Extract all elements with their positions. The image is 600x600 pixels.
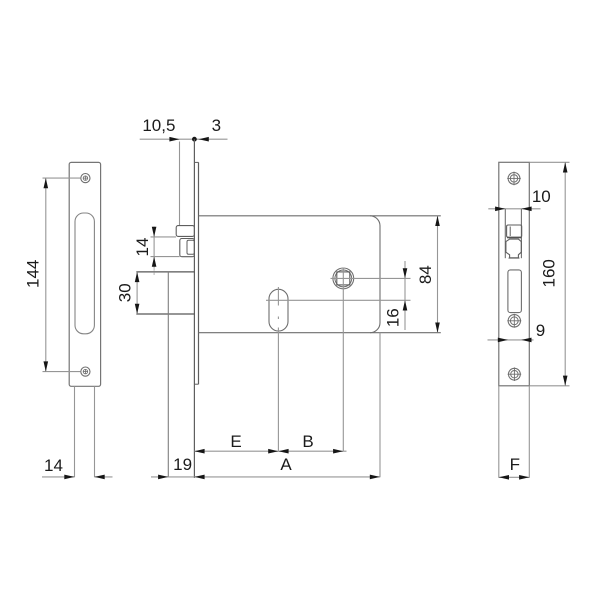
dimension 14 (latch) extension lines (151, 237, 180, 257)
forend bottom screw (508, 367, 522, 381)
dimension 10,5 arrow (169, 137, 179, 142)
keyhole oval (269, 289, 288, 331)
dimension 19 arrow (158, 475, 168, 480)
dimension E arrows (194, 449, 278, 454)
latch lower block inner rectangle (187, 240, 194, 254)
body right edge extension line (379, 333, 381, 478)
dimension 14 (slot width) line (42, 476, 113, 478)
latch lower block (180, 239, 195, 257)
auxiliary bolt front (506, 239, 521, 258)
dimension 160 arrows (563, 162, 568, 385)
svg-text:19: 19 (173, 455, 192, 474)
lock body top edge (199, 215, 441, 217)
dimension 10 line (488, 208, 540, 210)
svg-text:144: 144 (23, 260, 42, 288)
counter plate slot (75, 213, 94, 334)
cylinder screw (507, 314, 521, 328)
rear box left edge / extension line (167, 272, 169, 477)
latch head upper block (176, 226, 194, 237)
rear box top edge (136, 271, 194, 273)
dimension 84 line (437, 216, 439, 333)
screw hole bottom left plate (81, 367, 90, 376)
keyhole slot front (508, 270, 522, 313)
dimension 144 line (45, 178, 47, 372)
spindle hole inner circle (335, 270, 352, 287)
svg-text:9: 9 (536, 321, 545, 340)
latch channel lines (505, 209, 521, 258)
latch head front block (507, 225, 522, 237)
spindle horizontal centerline (331, 277, 411, 279)
svg-text:A: A (280, 455, 292, 474)
svg-text:16: 16 (383, 308, 402, 327)
dimension 3 arrow (199, 137, 209, 142)
forend top screw (507, 172, 521, 186)
svg-text:F: F (510, 455, 520, 474)
lock body right edge with rounded corners (370, 216, 380, 333)
dimension 10 arrows (495, 207, 531, 212)
dimension 9 line (488, 339, 534, 341)
latch divider line (507, 237, 522, 239)
slot width extension lines (75, 386, 95, 477)
latch head inner line (509, 227, 511, 237)
keyhole horizontal centerline (266, 299, 411, 301)
svg-text:160: 160 (539, 259, 558, 287)
dimension A left arrow (194, 475, 204, 480)
dimension A right arrow (370, 475, 380, 480)
auxiliary bolt bottom line (509, 257, 520, 259)
spindle vertical centerline (342, 268, 344, 452)
dimension 14 (slot width) arrows (64, 475, 104, 480)
dimension 84 arrows (435, 216, 440, 333)
dimension E/B line (194, 450, 346, 452)
dimension 30 arrows (135, 272, 140, 314)
dimension 9 arrows (498, 338, 532, 343)
dimension 14 (latch) line (153, 227, 155, 268)
dimension 16 arrows (403, 268, 408, 310)
forend edge extension lines (499, 386, 530, 478)
forend plate end caps (194, 162, 198, 384)
counter plate outline (69, 162, 100, 386)
dimension 16 line (404, 261, 406, 330)
dimension 144 arrows (44, 178, 49, 372)
keyhole vertical centerline (277, 287, 279, 451)
screw hole top left plate (81, 174, 90, 183)
forend plate left edge / extension line (193, 139, 195, 478)
svg-text:84: 84 (416, 265, 435, 284)
svg-text:3: 3 (212, 116, 221, 135)
lock body bottom edge (199, 332, 441, 334)
svg-text:10: 10 (532, 187, 551, 206)
svg-text:14: 14 (133, 238, 152, 257)
dimension F line (499, 476, 530, 478)
dimension 30 line (136, 272, 138, 314)
forend plate outline (499, 162, 530, 385)
forend plate right edge (198, 162, 200, 384)
svg-text:10,5: 10,5 (142, 116, 175, 135)
dimension origin dot (192, 137, 197, 142)
dimension B arrows (278, 449, 343, 454)
rear box bottom edge (136, 313, 194, 315)
dimension 144 extension lines (43, 178, 81, 372)
dimension 160 extension lines (530, 162, 570, 385)
dimension F arrows (499, 475, 530, 480)
svg-text:E: E (230, 432, 241, 451)
dimension 19/A line (151, 476, 380, 478)
dimension 160 line (564, 162, 566, 385)
spindle hole outer circle (333, 268, 354, 289)
dimension 10,5 / 3 line (140, 138, 228, 140)
svg-text:30: 30 (115, 283, 134, 302)
dimension 14 (latch) arrows (152, 227, 157, 267)
spindle square (337, 272, 350, 285)
svg-text:14: 14 (44, 456, 63, 475)
extension line latch tip (179, 142, 181, 226)
svg-text:B: B (302, 432, 313, 451)
